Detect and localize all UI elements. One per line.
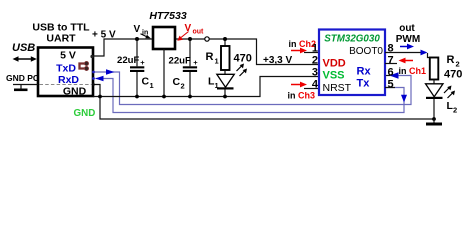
- arrow Vout pointer: [181, 32, 189, 38]
- svg-text:2: 2: [181, 82, 185, 91]
- arrow Ch2 probe: [291, 50, 302, 52]
- svg-text:Rx: Rx: [357, 66, 372, 78]
- LED L1: [224, 70, 226, 75]
- svg-text:3: 3: [312, 67, 318, 79]
- pin dot 5V on module edge: [90, 55, 93, 58]
- arrow Ch1 probe: [403, 60, 413, 62]
- svg-text:7: 7: [388, 55, 394, 67]
- capacitor C1: [136, 39, 138, 66]
- wire +5V rail Vout side to +3.3V VDD: [175, 39, 319, 65]
- arrow TxD direction out: [106, 69, 115, 75]
- svg-text:C: C: [173, 76, 181, 88]
- wire regulator ground pin: [163, 49, 165, 97]
- svg-text:22uF: 22uF: [169, 56, 192, 67]
- svg-text:UART: UART: [46, 33, 76, 45]
- stub pin4 NRST: [304, 88, 319, 90]
- LED L2: [433, 80, 435, 85]
- junction L2 ground: [432, 117, 436, 121]
- arrow into STM32 Rx pin6: [390, 72, 399, 78]
- svg-text:BOOT0: BOOT0: [349, 46, 383, 57]
- svg-text:STM32G030: STM32G030: [324, 34, 380, 45]
- svg-text:GND: GND: [63, 86, 87, 98]
- svg-text:22uF: 22uF: [117, 55, 140, 66]
- wire RxD blue from STM32 Tx: [96, 79, 405, 113]
- svg-text:6: 6: [388, 67, 394, 79]
- dashed GND PC net through module: [40, 84, 92, 86]
- stub pin1 BOOT0: [304, 52, 319, 54]
- ground symbol right: [433, 119, 435, 123]
- svg-text:NRST: NRST: [323, 82, 352, 94]
- svg-text:+: +: [140, 58, 145, 67]
- svg-text:HT7533: HT7533: [149, 10, 187, 22]
- svg-text:out: out: [193, 29, 205, 36]
- wire ground bus: [93, 77, 319, 97]
- node Vout test point: [205, 37, 209, 41]
- junction ground bus / bottom rail: [98, 95, 102, 99]
- svg-text:C: C: [142, 76, 150, 88]
- svg-text:+3,3 V: +3,3 V: [263, 55, 293, 66]
- LED L1 emission arrows: [237, 66, 242, 71]
- svg-text:TxD: TxD: [56, 63, 76, 75]
- svg-text:V: V: [134, 24, 141, 35]
- svg-text:1: 1: [312, 43, 318, 55]
- ground symbol PC: [20, 85, 22, 90]
- svg-text:USB: USB: [12, 42, 35, 54]
- svg-text:470: 470: [234, 53, 252, 65]
- svg-text:GND: GND: [74, 108, 96, 119]
- svg-text:4: 4: [312, 79, 319, 91]
- pin dot TxD: [92, 71, 95, 74]
- arrow into RxD pin: [95, 76, 104, 82]
- wire pin8 PWM to R2: [385, 52, 421, 54]
- svg-text:R: R: [447, 54, 455, 66]
- wire 5V pin of module up to +5V rail: [93, 39, 154, 56]
- wire TxD blue to STM32 Rx: [93, 72, 411, 105]
- stub pin5: [385, 87, 395, 89]
- svg-text:Tx: Tx: [357, 78, 371, 90]
- arrow Tx direction down: [401, 95, 407, 103]
- svg-text:+: +: [193, 58, 198, 67]
- regulator U1 HT7533: [153, 27, 175, 49]
- svg-text:1: 1: [150, 81, 154, 90]
- svg-text:VSS: VSS: [323, 70, 345, 82]
- svg-text:R: R: [206, 51, 214, 63]
- pin dot RxD: [92, 77, 95, 80]
- junction regulator gnd on bus: [162, 95, 166, 99]
- stub pin6 black: [385, 75, 390, 77]
- svg-text:out: out: [399, 23, 415, 34]
- stub pin7: [385, 63, 397, 65]
- wire GND PC through module to bottom rail: [93, 85, 434, 120]
- svg-text:470: 470: [444, 69, 462, 81]
- resistor R1: [224, 39, 226, 46]
- svg-text:VDD: VDD: [323, 58, 346, 70]
- pin dot GND PC: [92, 83, 95, 86]
- jumper J1 on module: [80, 64, 87, 69]
- svg-text:in Ch3: in Ch3: [288, 91, 316, 101]
- module U3 USB to TTL UART block: [38, 48, 93, 97]
- arrow PWM out: [400, 46, 409, 48]
- svg-text:1: 1: [215, 81, 219, 90]
- svg-text:5: 5: [388, 79, 394, 91]
- LED L2 emission arrows: [444, 88, 449, 93]
- svg-text:GND PC: GND PC: [6, 73, 39, 83]
- svg-text:5 V: 5 V: [60, 50, 76, 62]
- svg-text:PWM: PWM: [396, 34, 420, 45]
- svg-text:in Ch1: in Ch1: [399, 66, 427, 76]
- svg-text:2: 2: [312, 55, 318, 67]
- resistor R2: [430, 58, 439, 80]
- svg-text:2: 2: [456, 60, 460, 69]
- capacitor C2: [189, 39, 191, 66]
- arrow Ch3 probe: [291, 84, 302, 86]
- svg-text:2: 2: [453, 106, 457, 115]
- wire GND PC to module: [13, 84, 38, 86]
- MCU U2 STM32G030: [319, 30, 385, 96]
- svg-text:1: 1: [215, 57, 219, 66]
- USB bidirectional arrow: [16, 58, 34, 60]
